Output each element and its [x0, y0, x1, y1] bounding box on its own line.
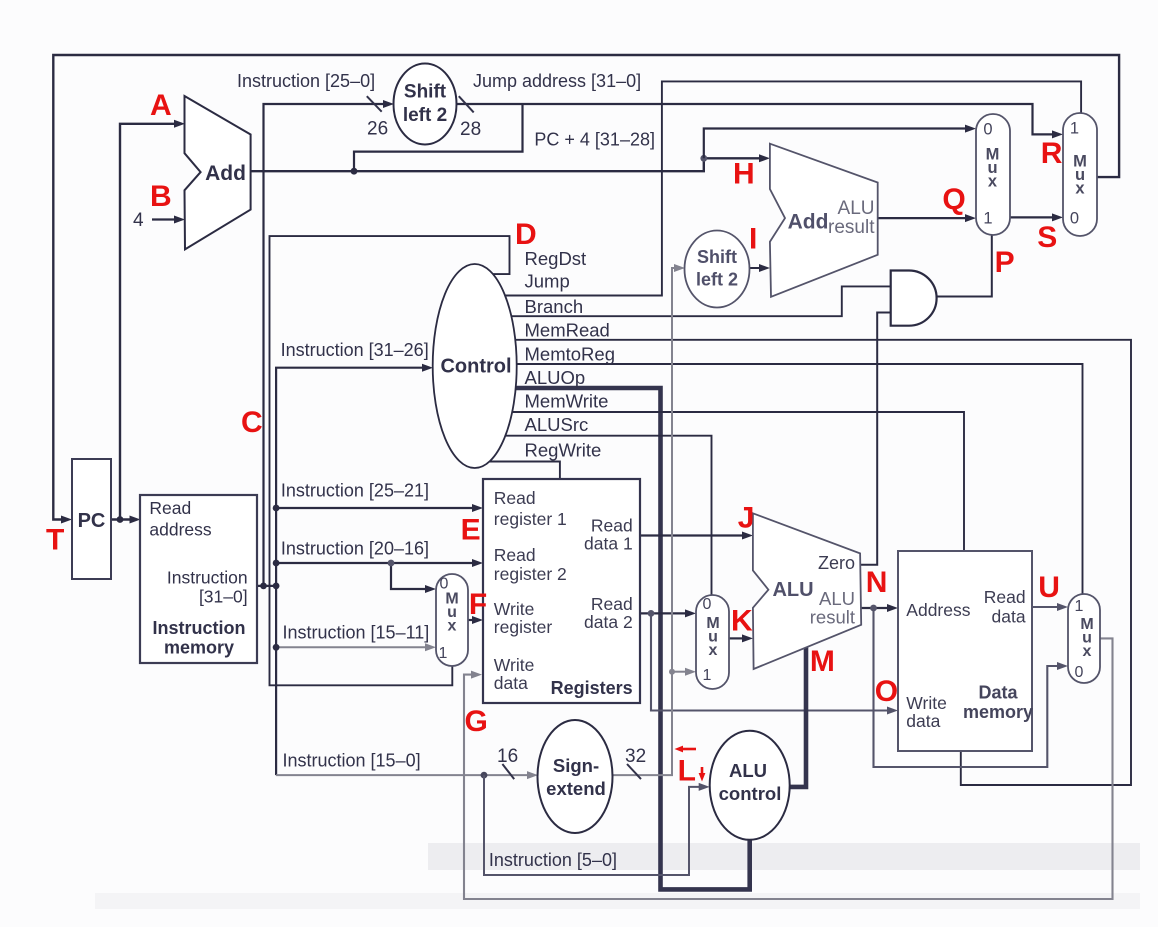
- svg-text:Instruction [15–11]: Instruction [15–11]: [283, 623, 430, 643]
- control unit: [433, 264, 517, 468]
- svg-text:M: M: [810, 645, 835, 678]
- wire: shift left 2 (branch) output to branch adder: [749, 264, 770, 272]
- svg-text:ALU: ALU: [729, 760, 767, 781]
- svg-text:MemWrite: MemWrite: [525, 391, 609, 412]
- control signal labels: [525, 248, 615, 461]
- wire: AND gate output to branch mux select (P): [937, 235, 992, 296]
- regdst mux (write register mux): [436, 574, 468, 666]
- wire: instruction[25-21] to read register 1 (E): [273, 481, 483, 513]
- svg-text:Shift: Shift: [404, 82, 447, 103]
- svg-text:O: O: [875, 675, 898, 708]
- wire: PC+4[31-28] up to jump address concatenation: [354, 104, 655, 171]
- svg-text:R: R: [1041, 137, 1063, 170]
- svg-text:32: 32: [625, 746, 646, 767]
- wire: instruction[15-11] to regdst mux input 1: [273, 623, 436, 652]
- svg-text:Instruction [20–16]: Instruction [20–16]: [281, 539, 429, 559]
- svg-text:Instruction [25–0]: Instruction [25–0]: [237, 71, 375, 91]
- svg-text:1: 1: [703, 667, 712, 684]
- svg-text:x: x: [709, 642, 718, 659]
- wire: instruction[20-16] to read register 2: [273, 539, 483, 568]
- wire: MemtoReg control to memory mux select: [516, 364, 1083, 594]
- svg-text:16: 16: [497, 746, 518, 767]
- svg-text:x: x: [1083, 643, 1092, 660]
- svg-text:Shift: Shift: [697, 247, 737, 267]
- svg-text:0: 0: [1075, 664, 1084, 681]
- svg-text:Jump: Jump: [525, 271, 570, 292]
- svg-text:ALU: ALU: [772, 579, 813, 601]
- svg-text:1: 1: [983, 210, 992, 228]
- svg-text:1: 1: [1075, 598, 1084, 615]
- svg-text:data: data: [494, 673, 528, 693]
- wire: memory mux output wrap to registers write data (G): [464, 638, 1113, 899]
- wire: PC+4 to branch mux input 0: [704, 125, 976, 159]
- svg-text:U: U: [1038, 571, 1060, 604]
- svg-text:Instruction: Instruction: [153, 618, 246, 638]
- wire: RegWrite control to registers: [489, 462, 560, 480]
- svg-text:0: 0: [983, 121, 992, 139]
- svg-text:address: address: [149, 520, 212, 540]
- svg-text:E: E: [461, 513, 481, 546]
- svg-text:26: 26: [367, 119, 388, 140]
- svg-text:Instruction [31–26]: Instruction [31–26]: [281, 340, 429, 360]
- svg-text:Read: Read: [591, 516, 633, 536]
- wire: jump mux output wrap-around to PC input: [53, 55, 1119, 524]
- wire: ALU result wrap to memory mux input 0: [874, 608, 1069, 767]
- svg-text:L: L: [678, 755, 696, 788]
- wire: ALUSrc mux output to ALU: [729, 634, 753, 642]
- svg-text:1: 1: [1070, 120, 1079, 138]
- svg-text:P: P: [995, 246, 1015, 279]
- svg-text:Write: Write: [494, 655, 535, 675]
- svg-text:Add: Add: [205, 162, 246, 185]
- svg-text:Instruction [15–0]: Instruction [15–0]: [283, 751, 421, 771]
- wire: read data 2 branch to memory write data (O): [651, 613, 898, 714]
- wire: instruction memory output bus: [257, 583, 280, 590]
- wire: branch mux output to jump mux input 0 (S): [1010, 213, 1063, 221]
- svg-text:Write: Write: [906, 693, 947, 713]
- svg-text:Control: Control: [440, 356, 511, 378]
- svg-text:PC: PC: [78, 510, 106, 532]
- instruction memory: [140, 495, 257, 663]
- svg-text:result: result: [828, 217, 875, 238]
- wire: read data 2 to ALUSrc mux input 0 (K): [640, 609, 696, 617]
- svg-text:1: 1: [439, 645, 448, 662]
- svg-text:Q: Q: [942, 183, 965, 216]
- branch mux: [976, 114, 1010, 235]
- wire: instruction[20-16] branch to regdst mux input 0: [388, 560, 436, 593]
- wire: Jump control to jump mux select: [505, 81, 1081, 295]
- wire: MemRead control to data memory: [514, 340, 1131, 785]
- svg-text:Read: Read: [494, 545, 536, 565]
- wire: Branch control to AND gate: [510, 286, 891, 316]
- svg-text:D: D: [515, 218, 537, 251]
- svg-text:Instruction [25–21]: Instruction [25–21]: [281, 481, 429, 501]
- svg-text:register: register: [494, 617, 553, 637]
- wire: PC to Add (input A): [120, 120, 185, 520]
- wire: PC+4 from Add output to branch Add input (H): [251, 154, 770, 174]
- shift left 2 (jump): [394, 64, 457, 145]
- svg-text:Address: Address: [906, 600, 970, 620]
- wire: instruction[25-0] to shift left 2: [237, 71, 394, 586]
- svg-text:[31–0]: [31–0]: [199, 587, 248, 607]
- svg-text:ALU: ALU: [838, 198, 875, 219]
- svg-text:x: x: [988, 173, 998, 191]
- ALUSrc mux: [696, 595, 729, 689]
- jump mux: [1063, 113, 1097, 236]
- svg-text:4: 4: [133, 210, 144, 231]
- svg-text:Data: Data: [978, 683, 1018, 703]
- wire: memory read data to memory mux input 1 (U): [1032, 603, 1068, 611]
- wire: instruction[31-26] to control unit: [276, 340, 433, 586]
- svg-text:Read: Read: [591, 594, 633, 614]
- wire: ALU zero output to AND gate: [861, 313, 891, 565]
- svg-text:memory: memory: [963, 702, 1033, 722]
- svg-text:Instruction: Instruction: [167, 568, 248, 588]
- shift left 2 (branch): [685, 231, 750, 308]
- registers file: [483, 479, 640, 703]
- svg-text:N: N: [866, 566, 888, 599]
- svg-text:Add: Add: [788, 211, 829, 234]
- svg-text:Read: Read: [149, 498, 191, 518]
- svg-text:Read: Read: [984, 587, 1026, 607]
- wire: instruction[15-0] to sign extend: [276, 746, 538, 779]
- svg-text:RegWrite: RegWrite: [525, 440, 602, 461]
- memory-to-register mux: [1068, 594, 1100, 683]
- svg-text:control: control: [719, 783, 782, 804]
- svg-text:MemRead: MemRead: [525, 320, 610, 341]
- adder Add ALU (branch target): [770, 144, 878, 297]
- svg-text:Write: Write: [494, 599, 535, 619]
- wire: read data 1 to ALU input (J): [640, 532, 753, 540]
- wire: ALUSrc control to ALU mux select: [505, 436, 712, 596]
- adder Add (PC+4): [185, 96, 251, 249]
- wire: instruction bus vertical (down): [275, 586, 277, 775]
- svg-text:extend: extend: [546, 778, 606, 799]
- svg-text:left 2: left 2: [696, 270, 738, 290]
- svg-text:Read: Read: [494, 488, 536, 508]
- svg-text:PC + 4 [31–28]: PC + 4 [31–28]: [534, 130, 655, 150]
- register PC: [72, 459, 111, 579]
- svg-text:Branch: Branch: [525, 296, 584, 317]
- svg-text:data 2: data 2: [584, 612, 633, 632]
- wire: ALU result to data memory address (N): [862, 604, 899, 612]
- svg-text:RegDst: RegDst: [525, 248, 587, 269]
- ALU control: [710, 731, 790, 840]
- svg-text:Jump address [31–0]: Jump address [31–0]: [473, 71, 641, 91]
- AND gate: [891, 271, 937, 326]
- svg-text:0: 0: [703, 596, 712, 613]
- svg-text:B: B: [150, 180, 172, 213]
- svg-text:left 2: left 2: [403, 105, 447, 126]
- svg-text:register 2: register 2: [494, 564, 567, 584]
- wire: sign extend output up to shift-left-2 and ALUSrc mux input 1: [612, 264, 685, 779]
- svg-text:result: result: [810, 607, 855, 628]
- wire: jump address [31-0] to jump mux input 1: [456, 71, 1063, 140]
- svg-text:A: A: [150, 89, 172, 122]
- sign extend: [538, 720, 613, 833]
- svg-text:T: T: [46, 523, 64, 556]
- svg-text:data: data: [992, 607, 1026, 627]
- svg-text:ALUOp: ALUOp: [525, 367, 586, 388]
- wire: MemWrite control to data memory: [512, 412, 964, 551]
- svg-text:Sign-: Sign-: [553, 755, 599, 776]
- svg-text:K: K: [731, 605, 753, 638]
- wire: regdst mux output to write register (F): [468, 616, 483, 624]
- svg-text:x: x: [1075, 180, 1085, 198]
- svg-text:F: F: [469, 588, 487, 621]
- svg-text:I: I: [749, 222, 757, 255]
- data memory: [898, 551, 1033, 751]
- svg-text:data 1: data 1: [584, 534, 633, 554]
- svg-text:J: J: [738, 501, 755, 534]
- svg-text:28: 28: [460, 119, 481, 140]
- red overlay letters A-U: [46, 89, 1063, 788]
- svg-text:H: H: [733, 158, 755, 191]
- scan-noise light bands: [95, 843, 1140, 909]
- red small arrows near L: [675, 746, 706, 782]
- wire: constant 4 into Add: [133, 210, 185, 231]
- svg-text:MemtoReg: MemtoReg: [525, 344, 615, 365]
- wire: ALU control output to ALU (M, thick): [782, 648, 806, 787]
- svg-text:0: 0: [1070, 210, 1079, 228]
- wire: PC output to instruction memory read address: [111, 516, 141, 524]
- svg-text:ALUSrc: ALUSrc: [525, 414, 589, 435]
- svg-text:data: data: [906, 711, 940, 731]
- svg-text:x: x: [448, 618, 457, 635]
- svg-text:register 1: register 1: [494, 509, 567, 529]
- svg-text:C: C: [241, 406, 263, 439]
- wire: ALUOp control (thick) to ALU control: [514, 388, 750, 889]
- ALU: [753, 513, 861, 669]
- wire: instruction[5-0] to ALU control (L): [484, 775, 710, 875]
- wire: RegDst control to write-register mux select: [270, 236, 510, 685]
- svg-text:Instruction [5–0]: Instruction [5–0]: [489, 850, 617, 870]
- svg-text:Zero: Zero: [818, 553, 855, 573]
- svg-text:S: S: [1037, 221, 1057, 254]
- svg-text:Registers: Registers: [551, 678, 633, 698]
- wire: branch adder result to branch mux input 1 (Q): [878, 214, 976, 222]
- svg-text:memory: memory: [164, 638, 234, 658]
- svg-text:G: G: [465, 705, 488, 738]
